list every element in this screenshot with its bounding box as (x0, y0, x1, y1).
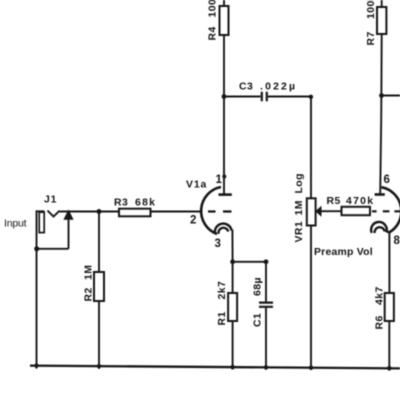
svg-text:V1a: V1a (186, 180, 207, 191)
svg-text:100k: 100k (366, 0, 377, 19)
wire input to R3 (60, 211, 119, 213)
resistor R5 (342, 207, 371, 215)
pin 1 dot (222, 175, 226, 179)
resistor R1 (228, 293, 237, 321)
svg-text:470k: 470k (346, 196, 374, 207)
svg-text:.022µ: .022µ (260, 82, 297, 93)
svg-text:R2: R2 (84, 287, 95, 301)
svg-text:R3: R3 (114, 198, 128, 209)
wire V1b cathode down (388, 232, 390, 293)
wire V1a cathode down (231, 230, 233, 262)
junction dot C3 branch (222, 94, 227, 99)
svg-text:C1: C1 (253, 313, 264, 327)
svg-text:1: 1 (216, 174, 223, 186)
svg-text:J1: J1 (44, 195, 57, 206)
capacitor C1 plates (259, 303, 273, 307)
potentiometer VR1 body (307, 198, 316, 225)
wire R2 to bus (98, 301, 100, 369)
capacitor C3 left wire (224, 96, 261, 98)
svg-text:R1: R1 (217, 311, 228, 325)
svg-text:6: 6 (384, 174, 390, 186)
wire branch to right edge (382, 95, 400, 97)
svg-text:68µ: 68µ (253, 277, 264, 296)
resistor R3 (119, 209, 151, 217)
jack J1 tip contact V (48, 211, 60, 217)
svg-text:1M: 1M (294, 200, 305, 215)
wire R4 to V1a anode (223, 35, 225, 194)
tube V1b envelope (381, 187, 400, 232)
capacitor C3 plates (262, 92, 267, 101)
svg-text:Log: Log (294, 173, 305, 193)
wire R1 to bus (232, 321, 234, 370)
svg-text:R5: R5 (327, 196, 341, 207)
wire cathode node to R1 (232, 262, 234, 293)
svg-text:8: 8 (394, 235, 400, 247)
capacitor C3 right wire (268, 96, 311, 98)
svg-text:68k: 68k (135, 198, 156, 209)
resistor R6 (385, 293, 394, 321)
junction dot bus R6 (387, 366, 391, 370)
tube V1a cathode curl (215, 224, 232, 234)
jack J1 plug arrow shaft (68, 218, 70, 249)
junction dot bus C1 (264, 365, 268, 369)
resistor R4 top wire (223, 0, 225, 6)
resistor R7 top wire (381, 0, 383, 7)
tube V1a envelope (201, 187, 221, 234)
wire R3 to V1a grid (151, 211, 203, 213)
tube V1a cathode inner curl (218, 228, 228, 234)
svg-text:2k7: 2k7 (217, 281, 228, 300)
ground bus (30, 366, 400, 369)
wire C3 down to VR1 (310, 97, 312, 199)
jack J1 bottom wire (37, 248, 69, 250)
wire VR1 to bus (310, 226, 312, 371)
junction dot R2 top (97, 209, 102, 214)
V1a grid dashes (208, 210, 232, 212)
junction dot bus R2 (97, 364, 101, 368)
svg-text:Input: Input (4, 218, 27, 230)
svg-text:R6: R6 (375, 315, 386, 329)
svg-text:VR1: VR1 (294, 221, 305, 243)
wire R7 to V1b anode (380, 34, 382, 194)
wire jack to ground bus (36, 249, 38, 369)
junction dot C3 corner (309, 95, 313, 99)
jack J1 plug arrowhead (64, 211, 73, 220)
junction dot cathode node (230, 259, 235, 264)
resistor R2 (94, 272, 104, 301)
tube V1a anode bar (219, 193, 232, 196)
svg-text:R7: R7 (366, 31, 377, 45)
junction dot bus R1 (230, 365, 234, 369)
tube V1b cathode inner curl (375, 227, 385, 233)
wire C1 down (265, 262, 267, 302)
svg-text:100k: 100k (208, 0, 219, 18)
wire R6 to bus (388, 321, 390, 371)
wire cathode node to C1 (233, 261, 266, 263)
tube V1b anode bar (375, 193, 385, 196)
tube V1b cathode curl (371, 222, 389, 233)
jack J1 tip rect (39, 212, 44, 232)
wire VR1 wiper to R5 (320, 210, 342, 212)
junction dot HT branch (379, 93, 384, 98)
junction dot C1 top (264, 259, 269, 264)
jack J1 sleeve line (36, 211, 38, 249)
wire junction down to R2 (98, 212, 100, 273)
svg-text:R4: R4 (208, 26, 219, 40)
junction dot jack/ground (34, 246, 39, 251)
svg-text:Preamp Vol: Preamp Vol (314, 247, 373, 258)
svg-text:3: 3 (215, 238, 221, 250)
resistor R7 (377, 7, 386, 34)
svg-text:C3: C3 (239, 82, 253, 93)
potentiometer VR1 wiper arrow (316, 207, 321, 216)
junction dot bus left (34, 363, 38, 367)
svg-text:4k7: 4k7 (375, 286, 386, 305)
svg-text:1M: 1M (84, 265, 95, 280)
jack J1 top tick (36, 210, 45, 212)
wire C1 to bus (265, 307, 267, 370)
svg-text:2: 2 (190, 215, 196, 227)
junction dot bus VR1 (309, 366, 313, 370)
resistor R4 (220, 6, 229, 35)
V1b grid dashes (372, 210, 400, 212)
